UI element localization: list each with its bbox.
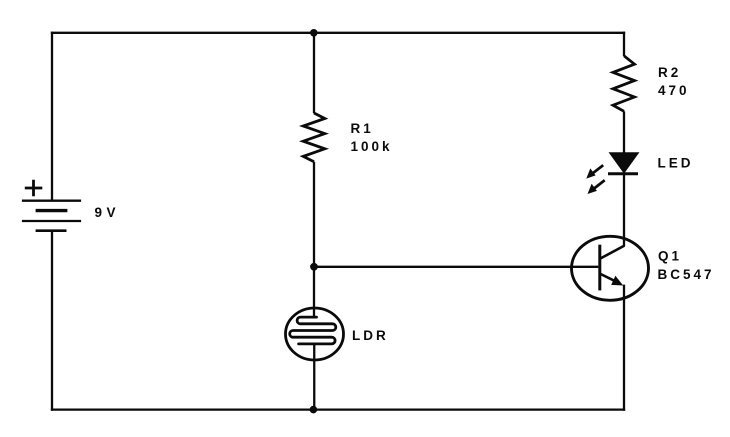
node dot top [310, 29, 318, 37]
svg-text:Q1: Q1 [658, 249, 682, 264]
wire middle (R1 to LDR) [313, 162, 315, 317]
svg-text:100k: 100k [351, 139, 393, 154]
LED D1 triangle [611, 153, 638, 172]
LDR circle [286, 308, 344, 360]
transistor Q1 collector lead [601, 246, 625, 259]
transistor Q1 emitter arrowhead [611, 276, 623, 286]
wire middle bottom (LDR to bottom rail) [313, 344, 315, 411]
wire LED to Q1 collector [623, 174, 625, 246]
node dot middle [310, 263, 318, 271]
svg-text:470: 470 [658, 83, 690, 98]
svg-text:LED: LED [658, 156, 694, 171]
battery plate short 1 [36, 209, 68, 212]
wire Q1 emitter to bottom rail [623, 285, 625, 411]
LED arrow 2 [588, 180, 605, 194]
svg-text:LDR: LDR [352, 328, 389, 343]
battery plus sign [25, 180, 43, 196]
wire middle top (top rail to R1) [313, 32, 315, 114]
svg-text:R1: R1 [351, 121, 374, 136]
wire bottom rail [51, 408, 625, 410]
wire left upper (battery + to top rail) [51, 32, 53, 200]
svg-text:BC547: BC547 [658, 267, 715, 282]
resistor R2 [613, 56, 635, 112]
svg-text:9V: 9V [95, 205, 121, 220]
transistor Q1 emitter lead [601, 274, 618, 283]
wire base (node to Q1 base) [314, 266, 598, 268]
battery plate short 2 [36, 229, 67, 232]
wire right upper (top rail to R2) [623, 32, 625, 56]
LED arrow 1 [586, 165, 603, 178]
svg-text:R2: R2 [658, 65, 681, 80]
battery BT1 9V [22, 180, 81, 231]
transistor Q1 base bar [598, 245, 601, 291]
LED cathode bar [608, 172, 638, 175]
LDR meander track [290, 317, 336, 344]
resistor R1 [303, 113, 325, 162]
battery plate long top [22, 200, 81, 202]
wire left lower (battery - to bottom rail) [51, 231, 53, 411]
node dot bottom [310, 406, 318, 414]
wire R2 to LED [623, 111, 625, 154]
transistor Q1 circle [572, 236, 649, 300]
battery plate long bottom [22, 220, 81, 222]
wire top rail [51, 32, 625, 34]
